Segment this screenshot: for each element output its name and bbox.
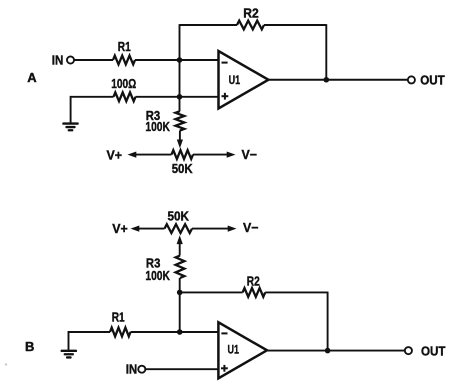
svg-text:R1: R1 <box>118 39 131 54</box>
svg-text:R1: R1 <box>112 310 125 325</box>
svg-text:U1: U1 <box>229 73 241 87</box>
svg-text:U1: U1 <box>228 342 240 356</box>
svg-text:50K: 50K <box>172 161 194 176</box>
svg-text:V−: V− <box>243 220 259 235</box>
svg-text:B: B <box>25 339 34 354</box>
svg-text:100K: 100K <box>145 119 170 134</box>
svg-text:100Ω: 100Ω <box>111 76 136 91</box>
svg-text:R2: R2 <box>247 274 260 289</box>
svg-text:V+: V+ <box>106 148 122 163</box>
svg-text:V−: V− <box>242 147 258 162</box>
svg-text:IN: IN <box>52 53 64 68</box>
svg-text:V+: V+ <box>112 221 128 236</box>
svg-text:IN: IN <box>126 362 138 377</box>
svg-text:OUT: OUT <box>421 343 446 358</box>
svg-text:50K: 50K <box>167 208 189 223</box>
svg-text:R2: R2 <box>243 6 259 21</box>
svg-text:A: A <box>27 70 37 85</box>
svg-text:OUT: OUT <box>420 73 445 88</box>
svg-text:100K: 100K <box>145 268 170 283</box>
